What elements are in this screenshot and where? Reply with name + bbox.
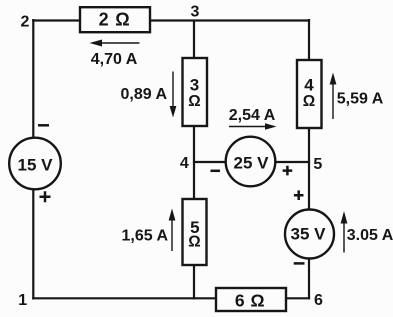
polarity plus of 35V (top) bbox=[294, 190, 304, 200]
current arrow for 3.05 A (pointing up) bbox=[341, 211, 348, 253]
svg-text:6: 6 bbox=[314, 292, 323, 309]
svg-text:2,54 A: 2,54 A bbox=[229, 107, 276, 124]
svg-text:2 Ω: 2 Ω bbox=[99, 10, 131, 30]
source 15V circle bbox=[9, 138, 61, 190]
svg-text:Ω: Ω bbox=[303, 93, 315, 110]
svg-text:Ω: Ω bbox=[188, 234, 200, 251]
current arrow for 1,65 A (pointing up) bbox=[169, 209, 176, 252]
svg-text:Ω: Ω bbox=[188, 93, 200, 110]
wire node2 to 15V top (left vertical upper) bbox=[32, 19, 34, 138]
wire node4 horizontal to 25V left bbox=[193, 161, 226, 163]
source 25V circle bbox=[226, 137, 276, 187]
svg-text:0,89 A: 0,89 A bbox=[121, 86, 168, 103]
svg-text:3.05 A: 3.05 A bbox=[347, 227, 393, 244]
wire 2ohm right to top-right corner (top horizontal right) bbox=[150, 19, 310, 21]
svg-text:1,65 A: 1,65 A bbox=[122, 227, 169, 244]
wire node2 to 2ohm left (top horizontal left) bbox=[32, 19, 80, 21]
resistor R=3ohm box (middle-left vertical) bbox=[183, 58, 208, 126]
wire bottom rail left (node1 to 6ohm) bbox=[32, 297, 216, 299]
svg-text:3: 3 bbox=[191, 4, 200, 21]
svg-text:1: 1 bbox=[18, 292, 27, 309]
svg-text:4: 4 bbox=[304, 76, 314, 95]
svg-text:6 Ω: 6 Ω bbox=[235, 291, 265, 311]
current arrow for 2,54 A (pointing right) bbox=[229, 123, 277, 130]
current arrow for 4,70 A (pointing left) bbox=[90, 40, 140, 47]
svg-text:2: 2 bbox=[21, 13, 30, 30]
svg-text:35 V: 35 V bbox=[291, 225, 327, 244]
svg-text:4: 4 bbox=[180, 155, 189, 172]
wire 15V bottom to node1 (left vertical lower) bbox=[32, 190, 34, 300]
wire 5ohm bottom to bottom rail bbox=[193, 265, 195, 299]
polarity plus of 25V (right) bbox=[283, 166, 293, 176]
wire node5 down to 35V top bbox=[308, 162, 310, 210]
resistor R=5ohm box (lower-middle vertical) bbox=[183, 199, 207, 265]
wire 25V right to node5 bbox=[275, 161, 310, 163]
polarity minus of 15V (top) bbox=[38, 124, 49, 127]
svg-text:4,70 A: 4,70 A bbox=[91, 51, 138, 68]
resistor R=6ohm box (bottom) bbox=[216, 288, 286, 311]
svg-text:25 V: 25 V bbox=[234, 154, 270, 173]
svg-text:15 V: 15 V bbox=[18, 155, 54, 174]
wire bottom rail right (6ohm to node6) bbox=[286, 297, 310, 299]
current arrow for 5,59 A (pointing up) bbox=[330, 73, 337, 120]
wire 35V bottom to node6 corner bbox=[308, 258, 310, 299]
svg-text:5,59 A: 5,59 A bbox=[337, 90, 384, 107]
polarity minus of 25V (left) bbox=[211, 170, 221, 173]
wire 3ohm bottom to node4 bbox=[193, 126, 195, 162]
svg-text:5: 5 bbox=[313, 156, 322, 173]
polarity plus of 15V (bottom) bbox=[40, 191, 51, 202]
wire top-right corner down to 4ohm top (right vertical upper) bbox=[308, 19, 310, 60]
svg-text:3: 3 bbox=[190, 75, 199, 94]
resistor R=4ohm box (right vertical) bbox=[297, 60, 322, 128]
wire node3 stub down to 3ohm top bbox=[193, 21, 195, 59]
wire 4ohm bottom to node5 bbox=[308, 128, 310, 162]
resistor R=2ohm box (top) bbox=[80, 7, 150, 32]
polarity minus of 35V (bottom) bbox=[294, 262, 305, 265]
source 35V circle bbox=[285, 210, 334, 259]
wire node4 to 5ohm top bbox=[193, 162, 195, 199]
current arrow for 0,89 A (pointing down) bbox=[170, 72, 177, 118]
